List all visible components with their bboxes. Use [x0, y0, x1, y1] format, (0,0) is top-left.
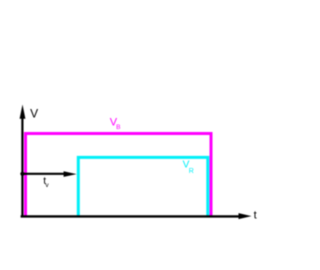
- delay arrow t_v: [23, 171, 77, 177]
- label V_R (cyan): [183, 160, 194, 175]
- waveform V_R rectangle (cyan): [78, 157, 208, 216]
- svg-text:v: v: [45, 182, 49, 189]
- svg-text:V: V: [30, 106, 38, 120]
- label t_v: [43, 175, 49, 189]
- label V_B (magenta): [110, 116, 121, 131]
- y-axis V: [20, 105, 26, 218]
- x-axis t: [21, 213, 252, 219]
- svg-text:t: t: [254, 210, 257, 222]
- waveform V_B rectangle (magenta): [26, 134, 212, 217]
- svg-text:R: R: [189, 168, 194, 175]
- node: dot on y-axis: [20, 172, 24, 176]
- svg-text:B: B: [116, 124, 121, 131]
